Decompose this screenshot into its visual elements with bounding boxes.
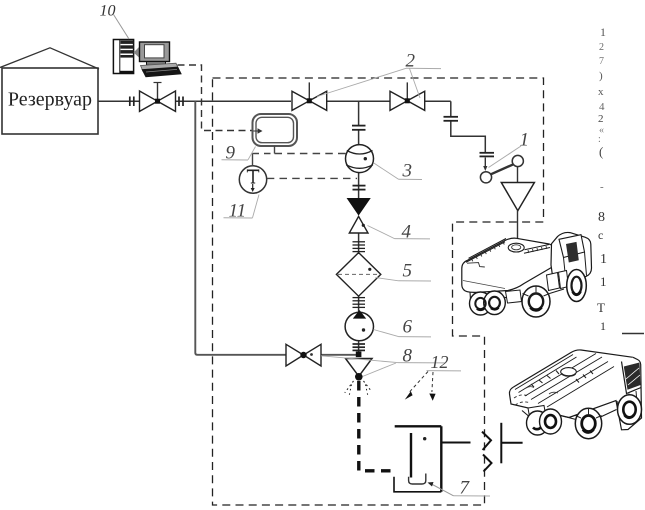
check valve 4 (348, 199, 370, 234)
svg-text:1: 1 (520, 130, 530, 151)
display 9 (253, 114, 298, 146)
svg-text:6: 6 (403, 317, 413, 338)
wire right branch to coupling (444, 101, 495, 171)
flange pair above flow meter (352, 126, 366, 130)
wire left vertical pipe (195, 101, 360, 354)
svg-text:4: 4 (599, 101, 605, 113)
flange stack below filter (353, 298, 366, 308)
svg-text:Т: Т (597, 300, 605, 315)
reservoir tank (0, 48, 99, 134)
flange pair below flow meter (353, 186, 366, 190)
svg-text:7: 7 (599, 56, 604, 67)
svg-text:): ) (599, 70, 603, 82)
svg-text:-: - (600, 181, 604, 193)
wire dashed control computer to display (178, 65, 253, 131)
tanker truck lower (509, 350, 633, 418)
node junction nozzle (356, 352, 362, 358)
nozzle 8 (345, 359, 372, 397)
label 4 (368, 222, 431, 243)
label 6 (374, 317, 432, 338)
valve 2b (390, 82, 425, 110)
svg-text:(: ( (599, 144, 603, 159)
label 3 (374, 161, 422, 182)
computer 10 (113, 40, 181, 78)
svg-text:х: х (598, 86, 604, 98)
svg-text:1: 1 (600, 25, 606, 39)
svg-text:с: с (598, 228, 603, 242)
svg-text:10: 10 (100, 3, 116, 20)
label 2 (317, 51, 441, 99)
temperature sensor 11 (239, 166, 266, 193)
svg-text:Резервуар: Резервуар (8, 89, 92, 111)
wire main pipe (98, 100, 451, 102)
svg-text:4: 4 (402, 222, 412, 243)
flow meter 3 (346, 145, 374, 173)
label 7 (428, 478, 491, 499)
text fragment dash (622, 333, 644, 335)
svg-text:2: 2 (598, 113, 604, 125)
label 9 (222, 143, 256, 164)
truck lower wheels (522, 395, 642, 439)
label 11 (224, 195, 260, 222)
valve reservoir outlet (130, 83, 183, 112)
truck upper cab (547, 232, 592, 290)
flange stack below check valve (353, 242, 366, 252)
text fragments right edge (597, 25, 607, 333)
svg-text:1: 1 (600, 252, 607, 267)
dashed enclosure box (213, 78, 544, 505)
terminal box 7 (394, 426, 441, 492)
pump 6 (345, 310, 373, 341)
valve bottom drain (286, 344, 321, 366)
label 1 (489, 130, 530, 168)
tanker truck upper (462, 238, 559, 292)
valve 2a (292, 82, 327, 110)
hose coupling 1 (480, 155, 523, 183)
svg-text:2: 2 (599, 42, 604, 53)
svg-text:12: 12 (431, 352, 449, 372)
flange block above nozzle (353, 344, 366, 350)
truck upper wheels (470, 270, 587, 318)
svg-text:1: 1 (600, 319, 606, 333)
connector gap symbol (441, 423, 522, 472)
label 10 (100, 3, 130, 40)
wire vertical chain pipe (358, 101, 360, 354)
label 12 with arrows (405, 352, 461, 401)
label 8 (321, 346, 445, 377)
wire thick dashed nozzle to terminal (359, 381, 394, 471)
wire sensor dashed lines (253, 146, 358, 179)
truck lower cab (569, 357, 642, 430)
svg-text:8: 8 (598, 210, 605, 225)
svg-text:5: 5 (403, 261, 413, 282)
label 5 (376, 261, 432, 282)
filter 5 (336, 253, 380, 297)
funnel (501, 183, 534, 243)
svg-text:8: 8 (403, 346, 413, 367)
svg-text:3: 3 (402, 161, 413, 182)
svg-text:1: 1 (600, 274, 607, 289)
